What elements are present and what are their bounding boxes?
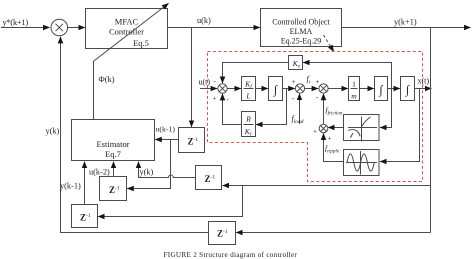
svg-text:fload: fload bbox=[292, 114, 304, 125]
svg-text:-: - bbox=[292, 95, 295, 103]
svg-text:Estimator: Estimator bbox=[96, 139, 129, 149]
svg-text:+: + bbox=[328, 135, 332, 143]
wire u(k) branch down to Z1e bbox=[191, 28, 193, 127]
integrator I3 bbox=[401, 77, 415, 101]
svg-text:u(k-1): u(k-1) bbox=[156, 125, 176, 134]
integrator I2 bbox=[375, 77, 388, 101]
wire Ke feedback from velocity node bbox=[303, 63, 391, 89]
svg-text:Controlled Object: Controlled Object bbox=[272, 17, 330, 26]
svg-text:Eq.25-Eq.29: Eq.25-Eq.29 bbox=[281, 36, 321, 45]
wire y(k) from Z1c to Estimator with hop bbox=[139, 162, 196, 178]
svg-text:ELMA: ELMA bbox=[290, 27, 313, 36]
svg-text:Controller: Controller bbox=[109, 27, 144, 37]
wire feedback into Z1c bbox=[223, 185, 431, 187]
wire bottom feedback into Z1d bbox=[236, 232, 430, 234]
svg-text:y(k): y(k) bbox=[46, 127, 60, 136]
wire Ke output to S1 top bbox=[223, 63, 289, 84]
wire position down to ripple block bbox=[380, 89, 420, 162]
red dashed detail boundary bbox=[208, 52, 423, 182]
delay block Z1a bbox=[100, 177, 127, 201]
svg-text:+: + bbox=[213, 95, 217, 103]
svg-text:ft: ft bbox=[307, 75, 311, 86]
svg-text:-: - bbox=[316, 94, 319, 102]
delay block Z1c bbox=[196, 166, 222, 190]
wire x(t) output bbox=[415, 88, 432, 90]
wire u(k): MFAC to Controlled Object bbox=[168, 27, 260, 29]
svg-text:-: - bbox=[227, 96, 230, 104]
wire 1/m to I2 bbox=[360, 88, 374, 90]
wire f_load input bbox=[299, 94, 301, 124]
svg-text:FIGURE 2 Structure diagram of: FIGURE 2 Structure diagram of controller bbox=[164, 251, 298, 259]
summing junction S1 bbox=[218, 84, 227, 93]
wire Phi(k): estimator output up and diagonal through MFAC bbox=[94, 3, 169, 119]
wire Z1d output left and up to X1 bbox=[61, 37, 209, 233]
wire u(k-1) from Z1e to Estimator bbox=[155, 139, 178, 141]
delay block Z1d bbox=[209, 222, 236, 245]
wire f_friction into S3 bbox=[323, 94, 325, 124]
wire y(k-1) from Z1b up to Estimator bbox=[84, 162, 86, 205]
svg-text:Eq.5: Eq.5 bbox=[133, 38, 149, 48]
wire y(k+1) feedback down right side bbox=[430, 28, 432, 233]
wire u(t) input bbox=[200, 88, 217, 90]
wire current feedback to R/Kf bbox=[256, 89, 286, 125]
summing junction S4 bbox=[319, 124, 328, 133]
wire branch down to y line for Z1b bbox=[98, 186, 242, 217]
svg-text:u(t): u(t) bbox=[199, 78, 211, 87]
svg-text:+: + bbox=[292, 78, 296, 86]
svg-text:MFAC: MFAC bbox=[115, 17, 139, 27]
svg-text:u(k): u(k) bbox=[197, 16, 211, 25]
svg-text:∫: ∫ bbox=[378, 82, 383, 96]
svg-text:u(k-2): u(k-2) bbox=[89, 168, 110, 177]
svg-text:fripple: fripple bbox=[325, 144, 340, 155]
wire u(k-1) branch down to Z1a bbox=[127, 140, 170, 189]
svg-text:Eq.7: Eq.7 bbox=[105, 149, 121, 159]
wire u(k-2) from Z1a up to Estimator bbox=[113, 162, 115, 177]
wire S2 to S3 bbox=[305, 88, 319, 90]
svg-text:∫: ∫ bbox=[273, 82, 278, 96]
block Ke bbox=[289, 56, 303, 70]
block R/Kf bbox=[242, 112, 256, 138]
wire y(k+1) output bbox=[342, 27, 471, 29]
wire friction output to S4 bbox=[328, 127, 343, 129]
summing junction S2 bbox=[295, 84, 304, 93]
summing junction S3 bbox=[319, 84, 328, 93]
dashed arrow object to detail box bbox=[324, 35, 334, 52]
summing junction X1 (multiplier circle) bbox=[51, 19, 68, 36]
wire S3 to 1/m bbox=[328, 88, 348, 90]
wire ripple output to S4 bottom bbox=[324, 133, 344, 161]
block friction curve bbox=[344, 115, 380, 142]
svg-text:m: m bbox=[351, 91, 357, 100]
svg-text:y(k-1): y(k-1) bbox=[60, 182, 81, 191]
svg-text:y(k): y(k) bbox=[140, 168, 154, 177]
wire I1 to S2 bbox=[283, 88, 295, 90]
svg-text:y*(k+1): y*(k+1) bbox=[3, 18, 29, 27]
Estimator block bbox=[72, 120, 155, 161]
integrator I1 bbox=[269, 77, 283, 101]
wire I2 to I3 velocity node bbox=[388, 88, 400, 90]
block Kf/L bbox=[242, 77, 256, 101]
wire X1 to MFAC bbox=[68, 27, 85, 29]
svg-text:1: 1 bbox=[352, 80, 356, 89]
svg-text:+: + bbox=[313, 128, 317, 136]
svg-text:L: L bbox=[245, 91, 250, 100]
wire velocity down to friction block bbox=[380, 89, 392, 128]
MFAC Controller block bbox=[86, 9, 168, 49]
svg-text:y(k+1): y(k+1) bbox=[394, 18, 417, 27]
block ripple sine bbox=[344, 150, 380, 176]
wire R/Kf output to S1 bottom bbox=[223, 94, 242, 125]
svg-text:R: R bbox=[245, 115, 251, 124]
svg-text:+: + bbox=[316, 78, 320, 86]
wire Kf/L to integrator I1 bbox=[256, 88, 268, 90]
svg-text:-: - bbox=[214, 77, 217, 85]
block 1/m bbox=[349, 77, 360, 101]
svg-text:x(t): x(t) bbox=[418, 77, 430, 86]
delay block Z1e bbox=[179, 128, 205, 153]
svg-text:ffriction: ffriction bbox=[326, 106, 343, 117]
node yref input wire bbox=[1, 27, 50, 29]
wire S1 to Kf/L bbox=[227, 88, 241, 90]
delay block Z1b bbox=[72, 205, 98, 228]
svg-text:∫: ∫ bbox=[405, 82, 410, 96]
Controlled Object block bbox=[261, 9, 342, 47]
svg-text:Φ(k): Φ(k) bbox=[99, 74, 115, 84]
